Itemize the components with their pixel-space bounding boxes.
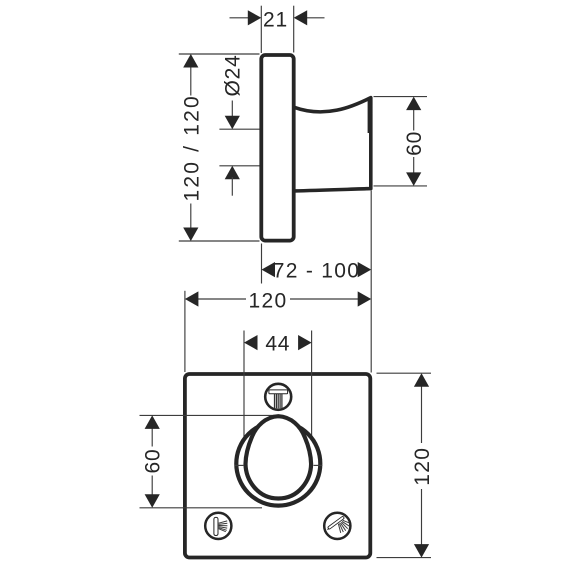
dimension 120 right arrow up (414, 373, 429, 387)
dimension 60 side arrow up (406, 97, 421, 111)
hand shower icon left head bar (214, 517, 218, 535)
diameter 24 arrow up (225, 166, 240, 180)
dimension 21 extension line left (260, 6, 262, 53)
dimension 120 right line upper segment (421, 386, 423, 443)
handle side view body (294, 98, 371, 191)
dimension 60 front extension line bottom (140, 507, 263, 509)
hand shower icon right wand (329, 518, 342, 528)
dimension 60 front arrow up (145, 415, 160, 429)
dimension 60 front extension line top (140, 414, 277, 416)
handle side view end cap inner edge (368, 99, 370, 133)
overhead shower icon head bar (269, 390, 288, 394)
svg-text:120: 120 (411, 447, 434, 486)
dimension 120/120 line upper segment (190, 60, 192, 96)
dimension 120/120 extension line top (179, 53, 260, 55)
dimension 44 extension line left (243, 331, 245, 463)
svg-text:60: 60 (142, 449, 165, 474)
dimension 44 arrow left (244, 335, 258, 350)
dimension 21 arrow left (pointing right) (248, 10, 261, 25)
dimension 120 top line left segment (197, 298, 246, 300)
hand shower icon right wand tail (328, 528, 330, 529)
dimension 21 tail left (230, 17, 251, 19)
dimension 72-100 arrow right (358, 262, 372, 277)
hand shower icon right circle (324, 513, 350, 539)
handle seam line left (234, 464, 243, 466)
dimension 120/120 extension line bottom (179, 240, 260, 242)
dimension 72-100 extension line left (261, 244, 263, 284)
dimension 60 front arrow down (145, 494, 160, 508)
dimension 44 extension line right (311, 331, 313, 463)
dimension 120 right extension line bottom (377, 557, 432, 559)
svg-text:44: 44 (265, 332, 290, 355)
diameter 24 extension line lower (219, 165, 259, 167)
overhead shower icon water stripes (275, 394, 282, 409)
dimension 60 side extension line top (374, 96, 428, 98)
handle front view outer ring circle (236, 422, 320, 506)
hand shower icon left spray (219, 521, 228, 532)
dimension 120/120 arrow up (183, 54, 198, 68)
dimension 120 top arrow right (358, 291, 372, 306)
dimension 120 top extension line left (184, 291, 186, 372)
dimension 72-100 arrow left (262, 262, 276, 277)
svg-text:120 / 120: 120 / 120 (180, 94, 203, 201)
svg-text:Ø24: Ø24 (222, 54, 245, 96)
diameter 24 extension line upper (219, 128, 259, 130)
dimension 72-100 extension line right (runs down to front view) (370, 191, 372, 373)
dimension 120 right line lower segment (421, 489, 423, 545)
svg-text:60: 60 (403, 131, 426, 156)
dimension 120/120 line lower segment (190, 204, 192, 236)
dimension 21 arrow right (pointing left) (294, 10, 308, 25)
front plate square (185, 374, 370, 558)
hand shower icon left circle (205, 513, 231, 539)
dimension 120 right extension line top (377, 372, 432, 374)
escutcheon plate side view (261, 55, 293, 241)
diameter 24 lower stem (231, 177, 233, 196)
svg-text:120: 120 (249, 289, 288, 312)
dimension 120 right arrow down (414, 544, 429, 558)
dimension 120/120 arrow down (183, 228, 198, 242)
handle seam line right (313, 464, 322, 466)
svg-text:72 - 100: 72 - 100 (273, 259, 360, 282)
hand shower icon right spray (338, 520, 350, 533)
dimension 60 side line lower segment (413, 157, 415, 174)
dimension 60 front line lower segment (151, 476, 153, 496)
dimension 21 extension line right (293, 6, 295, 53)
svg-text:21: 21 (263, 9, 288, 32)
handle front view grip (teardrop) (246, 416, 312, 498)
dimension 60 side line upper segment (413, 109, 415, 131)
overhead shower icon circle (265, 384, 291, 410)
dimension 44 arrow right (298, 335, 312, 350)
dimension 120 top line right segment (290, 298, 359, 300)
diameter 24 upper stem (231, 101, 233, 119)
dimension 60 front line upper segment (151, 428, 153, 447)
dimension 21 tail right (306, 17, 325, 19)
diameter 24 arrow down (225, 116, 240, 130)
dimension 60 side extension line bottom (374, 185, 428, 187)
dimension 60 side arrow down (406, 172, 421, 186)
dimension 120 top arrow left (185, 291, 199, 306)
